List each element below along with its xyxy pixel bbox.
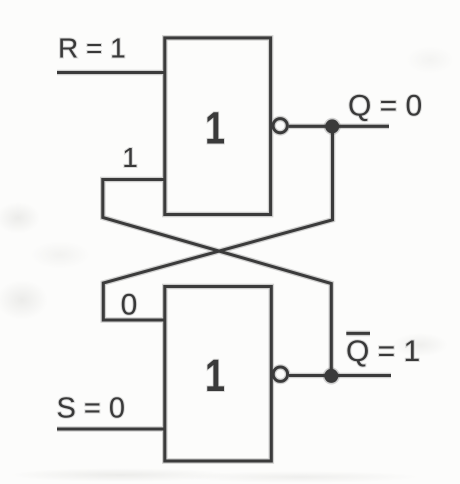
svg-text:R = 1: R = 1 xyxy=(58,33,126,64)
svg-text:Q = 0: Q = 0 xyxy=(348,90,422,123)
svg-text:Q = 1: Q = 1 xyxy=(346,335,420,368)
svg-text:0: 0 xyxy=(121,289,138,322)
svg-text:1: 1 xyxy=(205,350,225,401)
svg-text:1: 1 xyxy=(122,142,138,173)
svg-text:S = 0: S = 0 xyxy=(57,393,126,425)
svg-text:1: 1 xyxy=(205,102,225,153)
